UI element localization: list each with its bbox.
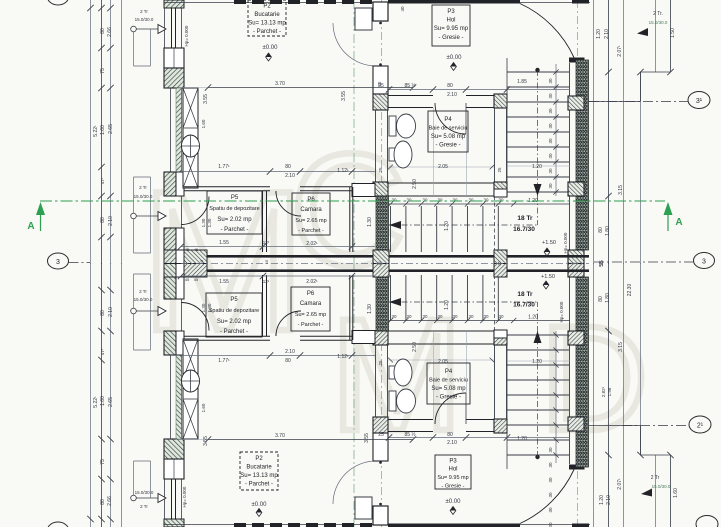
shaft divider (183, 127, 198, 129)
stair tread vertical (405, 275, 407, 321)
shaft divider (183, 398, 198, 400)
steps outline left v2 (133, 219, 135, 253)
P6 door leaf (275, 191, 277, 194)
wall P5-P6 right line (266, 275, 268, 336)
dim line left outer (90, 0, 92, 264)
svg-text:15.0/30.0: 15.0/30.0 (649, 20, 668, 25)
svg-text:2.07¹: 2.07¹ (617, 45, 623, 57)
svg-text:3: 3 (702, 259, 706, 266)
svg-text:2 Tr: 2 Tr (139, 289, 147, 294)
door leaf P5 (181, 197, 183, 229)
walking line horizontal (389, 224, 538, 226)
axis circle 3prime (688, 92, 710, 109)
svg-text:2.02¹: 2.02¹ (306, 279, 318, 285)
dim chain left (101, 263, 103, 527)
svg-text:1.30: 1.30 (201, 303, 206, 312)
P4 right wall line (494, 345, 496, 419)
dim line left outer (90, 263, 92, 527)
axis line wall kitchen-hall (381, 0, 383, 264)
room box P2 Bucatarie (248, 0, 286, 36)
wall P3-P4 line top (388, 95, 433, 97)
stair tread vertical (420, 275, 422, 321)
svg-text:45: 45 (194, 277, 199, 282)
svg-text:Spatiu de depozitare: Spatiu de depozitare (209, 308, 259, 314)
top wall face line (164, 2, 590, 4)
dim line kitchen lower bottom (181, 355, 375, 357)
axis circle bottom right (696, 516, 718, 527)
shaft rect (183, 88, 198, 188)
wall P3-P4 line top (388, 431, 433, 433)
thin wall line inner (181, 88, 183, 172)
svg-text:1.55: 1.55 (219, 279, 229, 285)
wall pier hatched below door (164, 228, 176, 252)
window sill top (165, 518, 182, 520)
stair tread horizontal (507, 364, 569, 366)
svg-text:Baie de serviciu: Baie de serviciu (429, 378, 468, 384)
toilet bowl (397, 389, 416, 413)
svg-text:Bucatarie: Bucatarie (254, 12, 280, 18)
svg-text:1.20: 1.20 (517, 436, 527, 442)
stair tread horizontal (507, 439, 569, 441)
svg-text:80: 80 (100, 499, 106, 505)
steps outline left (133, 32, 135, 66)
hatched pier stair right top (568, 417, 584, 431)
svg-text:2 Tr.: 2 Tr. (653, 11, 663, 17)
guide kitchen row ext (181, 87, 208, 89)
dim line P4 width (388, 359, 494, 361)
axis line vertical green (353, 0, 355, 264)
svg-text:15: 15 (377, 261, 382, 266)
axis line entry wall (577, 263, 579, 527)
porch step line (641, 454, 671, 456)
svg-text:25: 25 (378, 360, 383, 366)
top wall dash segment (234, 523, 246, 527)
pier kitchen-hall wall top (373, 2, 388, 21)
svg-text:1.20: 1.20 (596, 29, 602, 39)
hatched pier at stairs (373, 331, 388, 345)
svg-text:+1.50: +1.50 (541, 274, 555, 280)
boiler cross v (190, 135, 192, 157)
svg-text:Su= 5.08 mp: Su= 5.08 mp (431, 134, 466, 140)
wall A bottom line right (300, 190, 352, 192)
tick (98, 164, 104, 170)
svg-text:1.12¹: 1.12¹ (337, 168, 349, 174)
axis leader 3prime (589, 101, 688, 103)
party wall end white (176, 264, 184, 278)
tick flight (480, 201, 485, 206)
svg-text:2.66: 2.66 (107, 496, 113, 506)
stair tread vertical (390, 206, 392, 252)
P6 door leaf (275, 333, 277, 336)
entry door arc (520, 4, 574, 58)
room box P5 (207, 191, 262, 234)
wall A bottom line (184, 190, 270, 192)
level diamond hall bottom (450, 507, 456, 515)
tick flight (496, 201, 501, 206)
steps outline bottom (134, 65, 151, 67)
stair tread horizontal (507, 176, 569, 178)
window outer line (164, 479, 166, 519)
dim line right outer (640, 72, 642, 264)
wall P6 right line (349, 275, 351, 340)
wall line shaft left (375, 345, 377, 417)
top wall dash segment (306, 523, 318, 527)
svg-text:P6: P6 (307, 197, 315, 203)
door arc P6 (276, 191, 301, 216)
svg-text:- Parchet -: - Parchet - (245, 482, 273, 488)
svg-text:80: 80 (447, 83, 453, 89)
wall line shaft right (387, 345, 389, 417)
pier inner line (173, 48, 175, 68)
svg-text:18 Tr: 18 Tr (517, 215, 533, 222)
tick (98, 5, 104, 11)
svg-text:1.20: 1.20 (528, 315, 538, 321)
svg-text:30: 30 (406, 198, 412, 203)
wall A top line (184, 186, 270, 188)
svg-text:P4: P4 (445, 369, 453, 375)
svg-text:P4: P4 (444, 117, 452, 123)
svg-text:2.50: 2.50 (412, 179, 418, 189)
wall A bottom line (184, 335, 270, 337)
svg-text:1.80: 1.80 (605, 226, 611, 236)
hatched pier P4 top (494, 419, 507, 433)
stair tread vertical (467, 206, 469, 252)
svg-text:Su= 5.08 mp: Su= 5.08 mp (431, 386, 466, 392)
tick (98, 45, 104, 51)
svg-text:22.30: 22.30 (627, 284, 633, 297)
svg-text:P6: P6 (307, 291, 315, 297)
door arc P5 entrance (181, 303, 209, 331)
svg-text:1.85: 1.85 (517, 79, 527, 85)
tick (98, 357, 104, 363)
svg-text:P5: P5 (230, 297, 238, 303)
stair tread vertical (497, 206, 499, 252)
svg-text:30: 30 (548, 123, 553, 129)
steps outline left v (133, 314, 135, 350)
tick flight (434, 201, 439, 206)
walking line vertical (537, 70, 539, 225)
dim line P5 row (181, 246, 375, 248)
top wall dash segment (288, 523, 300, 527)
svg-text:1.77¹: 1.77¹ (218, 358, 230, 364)
stair tread vertical (451, 206, 453, 252)
party wall end hatch left (164, 264, 176, 278)
axis circle 3 right (694, 253, 715, 269)
toilet bowl (397, 114, 416, 138)
dim line kitchen width bottom (208, 439, 413, 441)
svg-text:30: 30 (498, 314, 504, 319)
porch line v2 (670, 0, 672, 72)
svg-text:40: 40 (400, 6, 405, 12)
wall pier hatched (164, 439, 184, 459)
svg-text:- Gresie -: - Gresie - (442, 484, 465, 490)
section arrow A left (36, 202, 45, 215)
svg-text:2.10: 2.10 (108, 307, 114, 317)
porch step line (641, 71, 671, 73)
svg-text:±0.00: ±0.00 (252, 502, 268, 508)
wall pier hatched at door (164, 331, 176, 355)
tick flight (465, 201, 470, 206)
svg-text:3.55: 3.55 (364, 433, 370, 443)
svg-text:1.98: 1.98 (607, 387, 612, 396)
level diamond kitchen (266, 53, 272, 61)
wall P6 right line 2 (352, 275, 354, 340)
stair wall dense hatch (376, 196, 389, 252)
dim line right mid (623, 0, 625, 264)
leader line (136, 497, 158, 499)
svg-text:A: A (27, 221, 34, 232)
top wall dash segment (306, 0, 318, 4)
tick (388, 165, 393, 170)
svg-text:±0.00: ±0.00 (447, 55, 463, 61)
svg-text:3.55: 3.55 (341, 91, 347, 101)
svg-text:80: 80 (447, 432, 453, 438)
stair right wall dense hatch (576, 60, 589, 250)
landing pier (494, 330, 507, 338)
svg-text:Su= 13.13 mp: Su= 13.13 mp (248, 21, 286, 27)
svg-text:Su= 2.65 mp: Su= 2.65 mp (295, 218, 326, 224)
porch line v1 (655, 455, 657, 527)
porch arrow bottom (641, 489, 652, 497)
pier below kitchen door (373, 433, 388, 461)
steps outline left v2 (133, 274, 135, 308)
top wall dash segment (360, 523, 372, 527)
wall P3-P4 line bottom (388, 107, 433, 109)
pier kitchen-hall wall top (373, 506, 388, 525)
tick flight bottom (496, 318, 501, 323)
dim line P4 width (388, 166, 494, 168)
tick (98, 287, 104, 293)
svg-text:80: 80 (598, 296, 604, 302)
boiler cross h (182, 145, 200, 147)
hatched pier stair right bottom (568, 264, 584, 278)
svg-text:15: 15 (497, 261, 502, 266)
steps outline bottom h (134, 273, 151, 275)
door arc P6 (276, 311, 301, 336)
stair tread horizontal (507, 424, 569, 426)
shaft divider 2 (183, 378, 198, 380)
wall A top line right (300, 339, 352, 341)
stair tread horizontal (507, 454, 569, 456)
room box P6 bottom (291, 287, 330, 331)
svg-text:2.10: 2.10 (108, 216, 114, 226)
window glass line 2 (175, 8, 177, 48)
boiler cross v (190, 370, 192, 392)
hatched pier kitchen-hall (373, 94, 388, 110)
hatched pier P4 bottom (494, 331, 507, 345)
svg-text:85 ½: 85 ½ (404, 431, 416, 438)
svg-text:Su= 2.02 mp: Su= 2.02 mp (217, 319, 252, 325)
svg-text:30: 30 (468, 314, 474, 319)
svg-text:2.10: 2.10 (285, 173, 295, 179)
stair right wall inner line (569, 277, 571, 464)
section arrow stem left (40, 215, 42, 231)
sink bowl (394, 359, 412, 386)
svg-text:30: 30 (391, 198, 397, 203)
stair tread horizontal (507, 161, 569, 163)
porch line v2 (670, 455, 672, 527)
svg-text:30: 30 (548, 168, 553, 174)
guide line door P4 (433, 108, 435, 196)
svg-text:1.50: 1.50 (670, 28, 676, 38)
leader line door (136, 310, 158, 312)
svg-text:15.0/30.0: 15.0/30.0 (135, 17, 154, 22)
wall P3-P4 right bottom (466, 107, 494, 109)
svg-text:3.70: 3.70 (275, 433, 285, 439)
tick flight (403, 201, 408, 206)
guide line door P4 b (466, 331, 468, 393)
top wall hall solid (388, 524, 520, 527)
svg-text:2.10: 2.10 (604, 29, 610, 39)
flight left edge (506, 331, 508, 469)
level diamond hall (451, 63, 457, 71)
porch side line (640, 72, 642, 101)
svg-text:5.22¹: 5.22¹ (93, 396, 99, 408)
svg-text:3.15: 3.15 (618, 185, 624, 195)
door jamb white 2 (176, 228, 184, 252)
wall below P4 top line (388, 182, 494, 184)
svg-text:30: 30 (391, 314, 397, 319)
leader arrow (158, 25, 166, 34)
tick (98, 476, 104, 482)
svg-text:3¹: 3¹ (696, 98, 703, 105)
svg-text:2 Tr: 2 Tr (140, 504, 148, 509)
dim line landing width (507, 360, 570, 362)
svg-text:Hp= 0.000: Hp= 0.000 (563, 232, 568, 253)
axis circle top edge (48, 0, 69, 5)
svg-text:2 Tr: 2 Tr (139, 185, 147, 190)
section arrow stem right (667, 215, 669, 231)
tick (490, 358, 495, 363)
entry door arc (520, 470, 574, 524)
svg-text:A: A (675, 217, 682, 228)
leader circle window (131, 495, 137, 501)
kitchen door arc (333, 23, 376, 66)
tick (98, 516, 104, 522)
landing pier (494, 189, 507, 197)
svg-text:1.20: 1.20 (444, 221, 450, 231)
watermark + sections singletons below geometry (140, 120, 648, 464)
party wall end white (176, 250, 184, 264)
party wall centreline (181, 263, 589, 265)
dim line left (110, 0, 112, 264)
boiler circle (182, 370, 200, 392)
leader line door (136, 215, 158, 217)
wall pier hatched (164, 68, 184, 88)
pier below kitchen door (373, 66, 388, 94)
svg-text:1.60: 1.60 (100, 125, 106, 135)
walking line horizontal (389, 301, 538, 303)
pier end dot (379, 503, 382, 506)
porch slab edge (589, 425, 641, 427)
wall pier white (164, 48, 184, 68)
dim chain right (608, 0, 610, 264)
svg-text:30: 30 (452, 314, 458, 319)
stair tread vertical (436, 206, 438, 252)
svg-text:Su= 9.95 mp: Su= 9.95 mp (437, 475, 468, 481)
leader line (136, 28, 158, 30)
stair tread horizontal (507, 131, 569, 133)
svg-text:15.0/30.0: 15.0/30.0 (135, 490, 154, 495)
wall A top line (184, 339, 270, 341)
pier inner line (173, 459, 175, 479)
dim line right (593, 0, 595, 264)
svg-text:+1.50: +1.50 (542, 240, 556, 246)
svg-text:1.60: 1.60 (201, 403, 206, 412)
svg-text:80: 80 (285, 164, 291, 170)
svg-text:12¹: 12¹ (263, 240, 270, 245)
boiler circle (182, 135, 200, 157)
hatched pier stair right top (568, 96, 584, 110)
shaft X diag (183, 399, 198, 439)
window sill bottom (165, 47, 182, 49)
svg-text:1.20: 1.20 (599, 495, 605, 505)
tick (98, 234, 104, 240)
stair tread vertical (497, 275, 499, 321)
svg-text:80: 80 (100, 310, 106, 316)
svg-text:2 Tr: 2 Tr (140, 9, 148, 14)
boiler cross h (182, 380, 200, 382)
door leaf P4 (465, 393, 467, 424)
wall pier hatched at door (164, 172, 176, 196)
svg-text:2.10: 2.10 (447, 92, 457, 98)
tick flight (419, 201, 424, 206)
tick flight (511, 201, 516, 206)
top wall dash segment (270, 523, 282, 527)
door arc P5 entrance (181, 197, 209, 225)
svg-text:30: 30 (548, 183, 553, 189)
top wall dash segment (324, 523, 336, 527)
leader circle door (131, 308, 137, 314)
svg-text:30: 30 (468, 198, 474, 203)
svg-text:2.65: 2.65 (108, 124, 114, 134)
room box P5 bottom (206, 293, 262, 337)
wall P3-P4 right top (466, 95, 494, 97)
svg-text:Su= 2.02 mp: Su= 2.02 mp (217, 217, 252, 223)
tick flight bottom (465, 318, 470, 323)
svg-text:2.05: 2.05 (438, 164, 448, 170)
svg-text:Hp= 0.000: Hp= 0.000 (184, 25, 189, 46)
wall P5-P6 left line (262, 275, 264, 336)
svg-text:80: 80 (598, 227, 604, 233)
guide line door P4 (433, 331, 435, 419)
wall P3-P4 right top (466, 431, 494, 433)
svg-text:P3: P3 (449, 459, 457, 465)
toilet tank (389, 116, 396, 136)
room box P4 bottom (427, 363, 470, 404)
stair tread horizontal (507, 86, 569, 88)
stair tread vertical (467, 275, 469, 321)
guide kitchen row ext (181, 439, 208, 441)
svg-text:25: 25 (378, 432, 384, 438)
dim line P5 row bottom (181, 275, 375, 277)
svg-text:P2: P2 (263, 4, 271, 10)
svg-text:25: 25 (497, 167, 502, 173)
svg-text:Su= 9.95 mp: Su= 9.95 mp (434, 26, 469, 32)
level diamond +1.50 (544, 248, 550, 256)
svg-text:30: 30 (422, 314, 428, 319)
shaft X diag lower (183, 339, 198, 379)
tick flight bottom (450, 318, 455, 323)
axis circle 2prime (689, 416, 711, 433)
stair tread horizontal (507, 349, 569, 351)
window inner line (181, 8, 183, 48)
door arc P4 (435, 393, 466, 424)
svg-text:1.12¹: 1.12¹ (337, 354, 349, 360)
svg-text:45: 45 (194, 247, 199, 252)
svg-text:75: 75 (100, 459, 106, 465)
svg-text:1.20: 1.20 (532, 359, 542, 365)
